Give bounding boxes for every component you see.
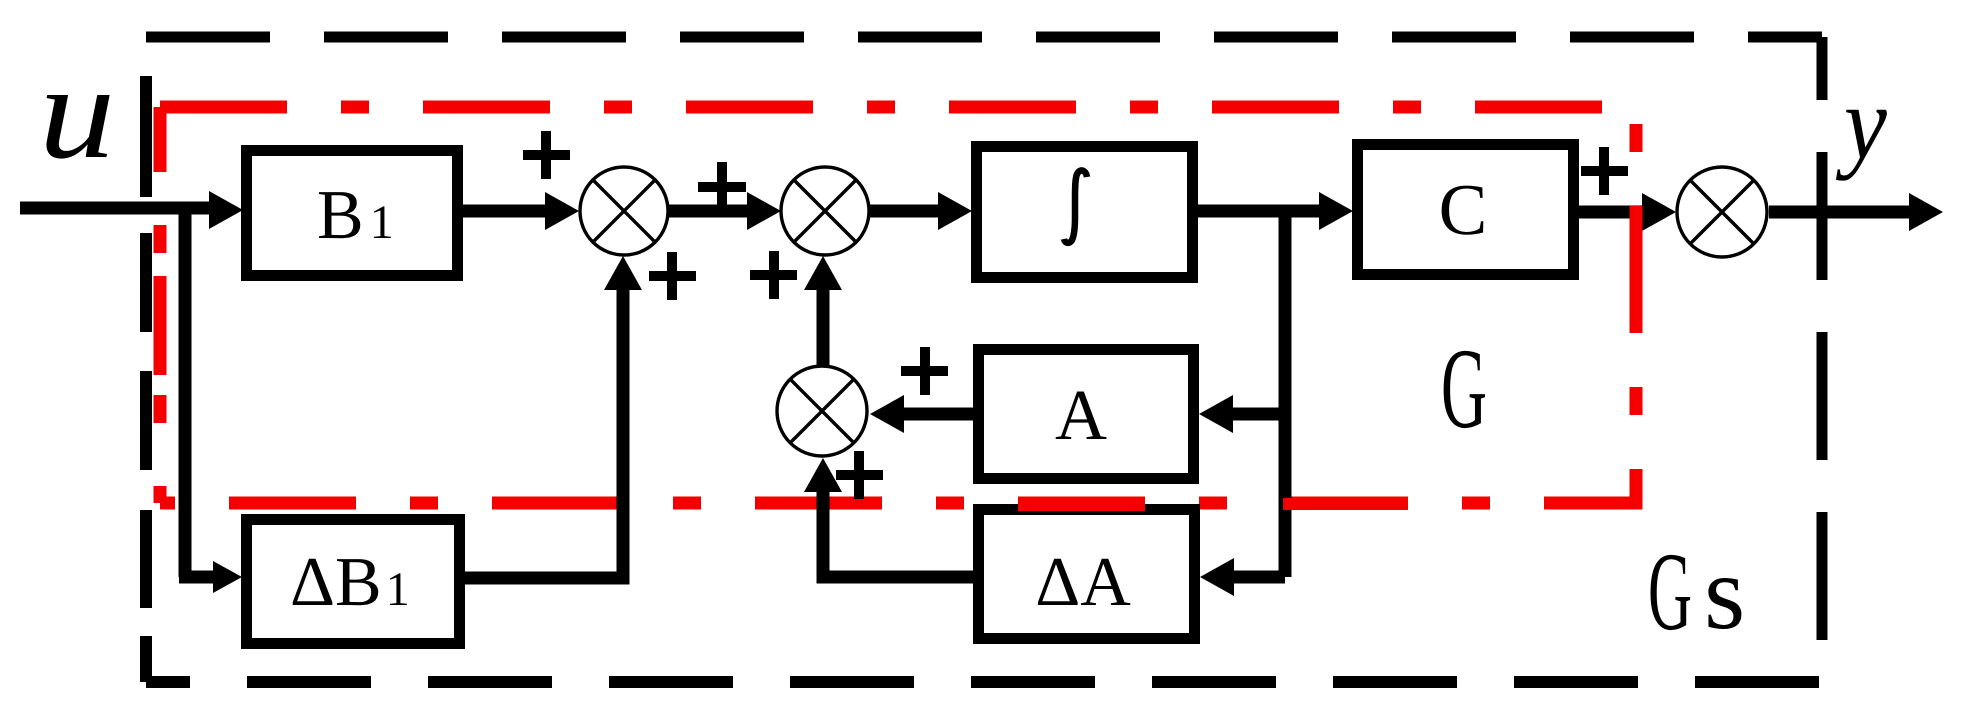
summer S3 xyxy=(777,366,867,456)
wire into dB1 xyxy=(179,561,242,593)
svg-text:u: u xyxy=(39,38,115,187)
block dB1 xyxy=(247,520,460,644)
wire S4 to output y xyxy=(1769,193,1943,231)
svg-text:A: A xyxy=(1055,375,1107,455)
summer S2 xyxy=(781,167,869,255)
plus sign below-right of S1 xyxy=(649,252,696,300)
plus sign below-right of S3 xyxy=(836,451,883,499)
block A xyxy=(979,350,1194,479)
plus sign on wire S1-S2 xyxy=(698,162,746,213)
wire input u to B1 xyxy=(20,191,243,229)
wire feedback into dA xyxy=(1200,558,1285,596)
outer dashed boundary Gs right edge xyxy=(1817,37,1828,682)
block dA xyxy=(979,510,1195,639)
wire feedback into A xyxy=(1199,395,1285,433)
plus sign above wire A-S3 xyxy=(901,347,948,395)
inner red dash-dot boundary G top edge xyxy=(160,101,1636,114)
svg-text:G: G xyxy=(1441,325,1487,452)
inner red dash-dot boundary G right edge overlay at C output xyxy=(1630,206,1643,333)
block B1 xyxy=(247,151,458,276)
inner red dash-dot boundary G bottom edge xyxy=(160,497,1642,510)
wire feedback branch vertical from integrator output xyxy=(1279,211,1292,577)
svg-text:ΔA: ΔA xyxy=(1035,544,1131,621)
wire S1 to summer S2 xyxy=(668,192,781,230)
inner red dash-dot boundary G left edge xyxy=(154,107,167,503)
svg-text:C: C xyxy=(1439,169,1488,250)
plus sign above-left of S1 xyxy=(523,131,570,179)
svg-text:G: G xyxy=(1648,530,1692,654)
outer dashed boundary Gs bottom edge xyxy=(146,676,1822,688)
outer dashed boundary Gs left edge xyxy=(140,76,152,682)
wire dB1 output feedback up to S1 xyxy=(464,256,642,578)
wire S2 to integrator xyxy=(869,192,972,230)
outer dashed boundary Gs top edge xyxy=(146,32,1822,43)
inner red dash-dot boundary G bottom edge overlay on dA top border xyxy=(1018,499,1145,511)
summer S4 xyxy=(1677,167,1767,257)
inner red dash-dot boundary G right edge xyxy=(1630,107,1643,509)
wire B1 to summer S1 xyxy=(462,192,579,230)
inner red dash-dot boundary G bottom edge overlay at feedback line xyxy=(1283,498,1408,510)
wire dA output to S3 xyxy=(804,458,975,577)
label integral sign xyxy=(1064,170,1087,242)
wire input branch down to dB1 xyxy=(179,208,192,577)
block C xyxy=(1358,145,1574,275)
plus sign below-left of S2 xyxy=(750,251,797,299)
wire A to summer S3 xyxy=(870,395,975,433)
wire S3 up to S2 xyxy=(804,256,842,366)
svg-text:s: s xyxy=(1704,534,1745,651)
wire C to summer S4 xyxy=(1579,193,1676,231)
summer S1 xyxy=(580,167,668,255)
plus sign above C output xyxy=(1581,147,1628,195)
wire integrator to C with junction xyxy=(1198,192,1353,230)
svg-text:y: y xyxy=(1836,64,1888,181)
block integrator xyxy=(977,147,1193,278)
